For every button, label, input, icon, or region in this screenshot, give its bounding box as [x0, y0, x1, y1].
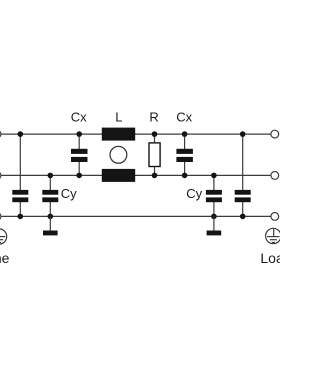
node rail3/Cy2 junction [48, 214, 54, 220]
svg-text:Cy: Cy [186, 186, 202, 201]
svg-text:Cx: Cx [71, 110, 87, 125]
node rail3/Cy3 junction [211, 214, 217, 220]
node rail1/Cy1 junction [18, 131, 24, 137]
wire Cy2 top lead (rail2 to Cy2) [49, 175, 51, 190]
wire earth stub right [213, 216, 215, 230]
inductor L core circle [110, 146, 127, 163]
wire Cy3 top lead (rail2 to Cy3) [213, 175, 215, 190]
wire Cx1 bottom lead [78, 162, 80, 176]
inductor L common-mode choke winding 2 [102, 169, 135, 182]
terminal line earth (left, cut off) [0, 213, 1, 221]
wire Cy3 bottom lead (Cy3 to rail3) [213, 202, 215, 217]
node rail1/Cx2 junction [182, 131, 188, 137]
node rail1/Cy4 junction [240, 131, 246, 137]
node rail1/R junction [152, 131, 158, 137]
capacitor Cy4 (phase to earth, right) [235, 190, 251, 202]
wire Cy2 bottom lead (Cy2 to rail3) [49, 202, 51, 217]
capacitor Cy3 (neutral to earth, right) [206, 190, 222, 202]
wire Cx1 top lead [78, 134, 80, 149]
wire rail 3 (earth line, bottom) [0, 215, 271, 217]
node rail3/Cy1 junction [18, 214, 24, 220]
wire Cx2 top lead [184, 134, 186, 149]
resistor R (discharge resistor) [149, 143, 160, 167]
wire Cx2 bottom lead [184, 162, 186, 176]
svg-text:Cy: Cy [61, 186, 77, 201]
node rail3/Cy4 junction [240, 214, 246, 220]
svg-text:L: L [115, 110, 122, 125]
node rail2/R junction [152, 173, 158, 179]
wire earth stub left [49, 216, 51, 230]
svg-text:R: R [149, 110, 158, 125]
svg-text:Cx: Cx [176, 110, 192, 125]
terminal load neutral (right) [271, 172, 279, 180]
svg-text:Line: Line [0, 250, 10, 266]
wire Cy1 top lead (rail1 to Cy1) [19, 134, 21, 190]
wire R top lead [154, 134, 156, 143]
ground bar left (chassis connection) [43, 231, 58, 236]
node rail2/Cy3 junction [211, 173, 217, 179]
wire Cy4 top lead (rail1 to Cy4) [242, 134, 244, 190]
node rail2/Cx1 junction [76, 173, 82, 179]
capacitor Cy2 (neutral to earth, left) [42, 190, 58, 202]
capacitor Cx1 (across lines, left) [71, 149, 88, 162]
terminal line neutral (left, cut off) [0, 172, 1, 180]
terminal load phase (right) [271, 130, 279, 138]
ground bar right (chassis connection) [207, 231, 222, 236]
capacitor Cy1 (phase to earth, left) [12, 190, 28, 202]
wire rail 1 (phase line, top) [0, 133, 271, 135]
svg-text:Load: Load [260, 250, 280, 266]
wire Cy1 bottom lead (Cy1 to rail3) [19, 202, 21, 217]
wire Cy4 bottom lead (Cy4 to rail3) [242, 202, 244, 217]
node rail2/Cy2 junction [48, 173, 54, 179]
wire rail 2 (neutral line, middle) [0, 174, 271, 176]
node rail1/Cx1 junction [76, 131, 82, 137]
terminal line phase (left, cut off) [0, 130, 1, 138]
protective earth symbol left (cut off at edge) [0, 229, 7, 244]
inductor L common-mode choke winding 1 [102, 128, 135, 141]
wire R bottom lead [154, 166, 156, 175]
protective earth symbol right [266, 228, 281, 243]
node rail2/Cx2 junction [182, 173, 188, 179]
capacitor Cx2 (across lines, right) [176, 149, 193, 162]
terminal load earth (right) [271, 213, 279, 221]
